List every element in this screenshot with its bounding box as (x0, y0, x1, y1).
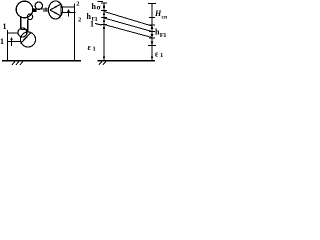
svg-text:1: 1 (90, 20, 94, 29)
left axis arrow down at base (103, 56, 106, 60)
cone base vertical (60, 4, 62, 17)
svg-text:2: 2 (78, 17, 81, 24)
right axis arrow down at y59.5 (151, 56, 154, 60)
left axis arrow down at y24.5 (103, 21, 106, 25)
ground line (2, 60, 81, 62)
svg-text:ε: ε (155, 50, 159, 59)
slanted line 3 (104, 25, 152, 38)
arrow up on crossbar (68, 10, 70, 17)
diagram base line (98, 60, 156, 62)
cone pulley ellipse C (49, 1, 63, 19)
left axis arrow up at y3 (103, 3, 106, 7)
crank pin circle on wheel A rim (27, 14, 32, 19)
right axis tick y45.5 (148, 45, 156, 47)
mesh mark (33, 9, 37, 12)
svg-text:1: 1 (160, 52, 163, 59)
connecting link left bar (20, 17, 22, 29)
cone lower line (50, 10, 61, 16)
link 2 vertical / right frame leg (74, 4, 76, 62)
base hatch 1 (99, 61, 102, 64)
right axis tick y3.5 (148, 3, 156, 5)
left axis tick y10.5 (101, 10, 107, 12)
right dimension axis (151, 4, 153, 62)
pinion B (small circle on shaft) (35, 2, 42, 9)
arrow up on arm (11, 38, 13, 46)
ground hatching (12, 61, 15, 65)
left axis arrow down at y17.5 (103, 14, 106, 18)
svg-text:ε: ε (88, 43, 92, 52)
left axis tick y17.5 (101, 17, 107, 19)
svg-text:1: 1 (163, 32, 166, 39)
left axis tick y3 (101, 2, 107, 4)
base hatch 2 (103, 61, 106, 64)
shaft second line (43, 10, 49, 12)
cone upper line (50, 4, 61, 10)
slanted line 2 (104, 18, 152, 32)
left axis arrow down at y10.5 (103, 7, 106, 11)
lower crossbar to link 2 (61, 12, 76, 14)
svg-text:2: 2 (76, 1, 79, 8)
right axis tick y38 (149, 37, 155, 39)
left dimension axis (103, 3, 105, 61)
right axis arrow down at y45.5 (151, 42, 154, 46)
right axis tick y25 (149, 24, 155, 26)
right axis tick y31.5 (149, 31, 155, 33)
upper crossbar to link 2 (62, 6, 76, 8)
svg-text:1: 1 (93, 46, 96, 53)
gear E (big lower circle) (21, 32, 36, 47)
frame arm to D (8, 32, 19, 34)
svg-text:1: 1 (0, 37, 4, 46)
wheel A (big top-left circle) (16, 1, 33, 18)
left frame leg (7, 30, 9, 61)
svg-text:1: 1 (95, 16, 98, 23)
left axis arrow up below y24.5 (103, 25, 106, 30)
left axis tick y24.5 (101, 24, 107, 26)
connecting link crossbar (21, 29, 28, 31)
right axis tick y17.5 (149, 17, 155, 19)
slanted line 1 (104, 12, 152, 27)
connecting link right bar (27, 19, 29, 32)
svg-text:1: 1 (3, 22, 7, 31)
shaft line (33, 8, 49, 10)
frame arm to E (8, 41, 21, 43)
svg-text:cm: cm (162, 15, 168, 21)
right axis arrow down at y38 (151, 34, 154, 38)
small gear D (18, 28, 27, 37)
chord inside gear E (21, 33, 31, 44)
right axis arrow up below y25 (151, 25, 154, 29)
shaft tick (45, 7, 47, 11)
